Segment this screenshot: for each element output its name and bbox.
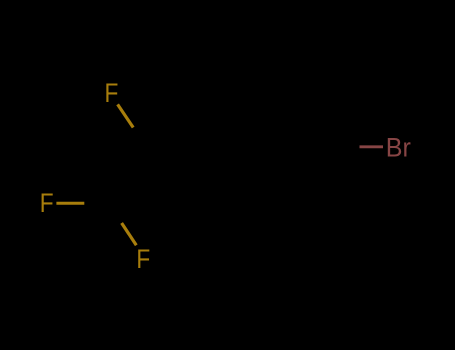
svg-text:Br: Br — [386, 132, 411, 163]
svg-text:F: F — [136, 244, 150, 274]
svg-text:F: F — [40, 188, 54, 218]
svg-text:F: F — [105, 78, 119, 108]
bond C2-F3 (gold half toward F3) — [122, 223, 137, 245]
bond C1-F1 (gold half toward F1) — [118, 104, 134, 127]
bond C2-F2 (gold half toward F2, horizontal) — [56, 202, 84, 205]
bond C4ring-Br (dark red half toward Br, horizontal) — [360, 145, 384, 148]
